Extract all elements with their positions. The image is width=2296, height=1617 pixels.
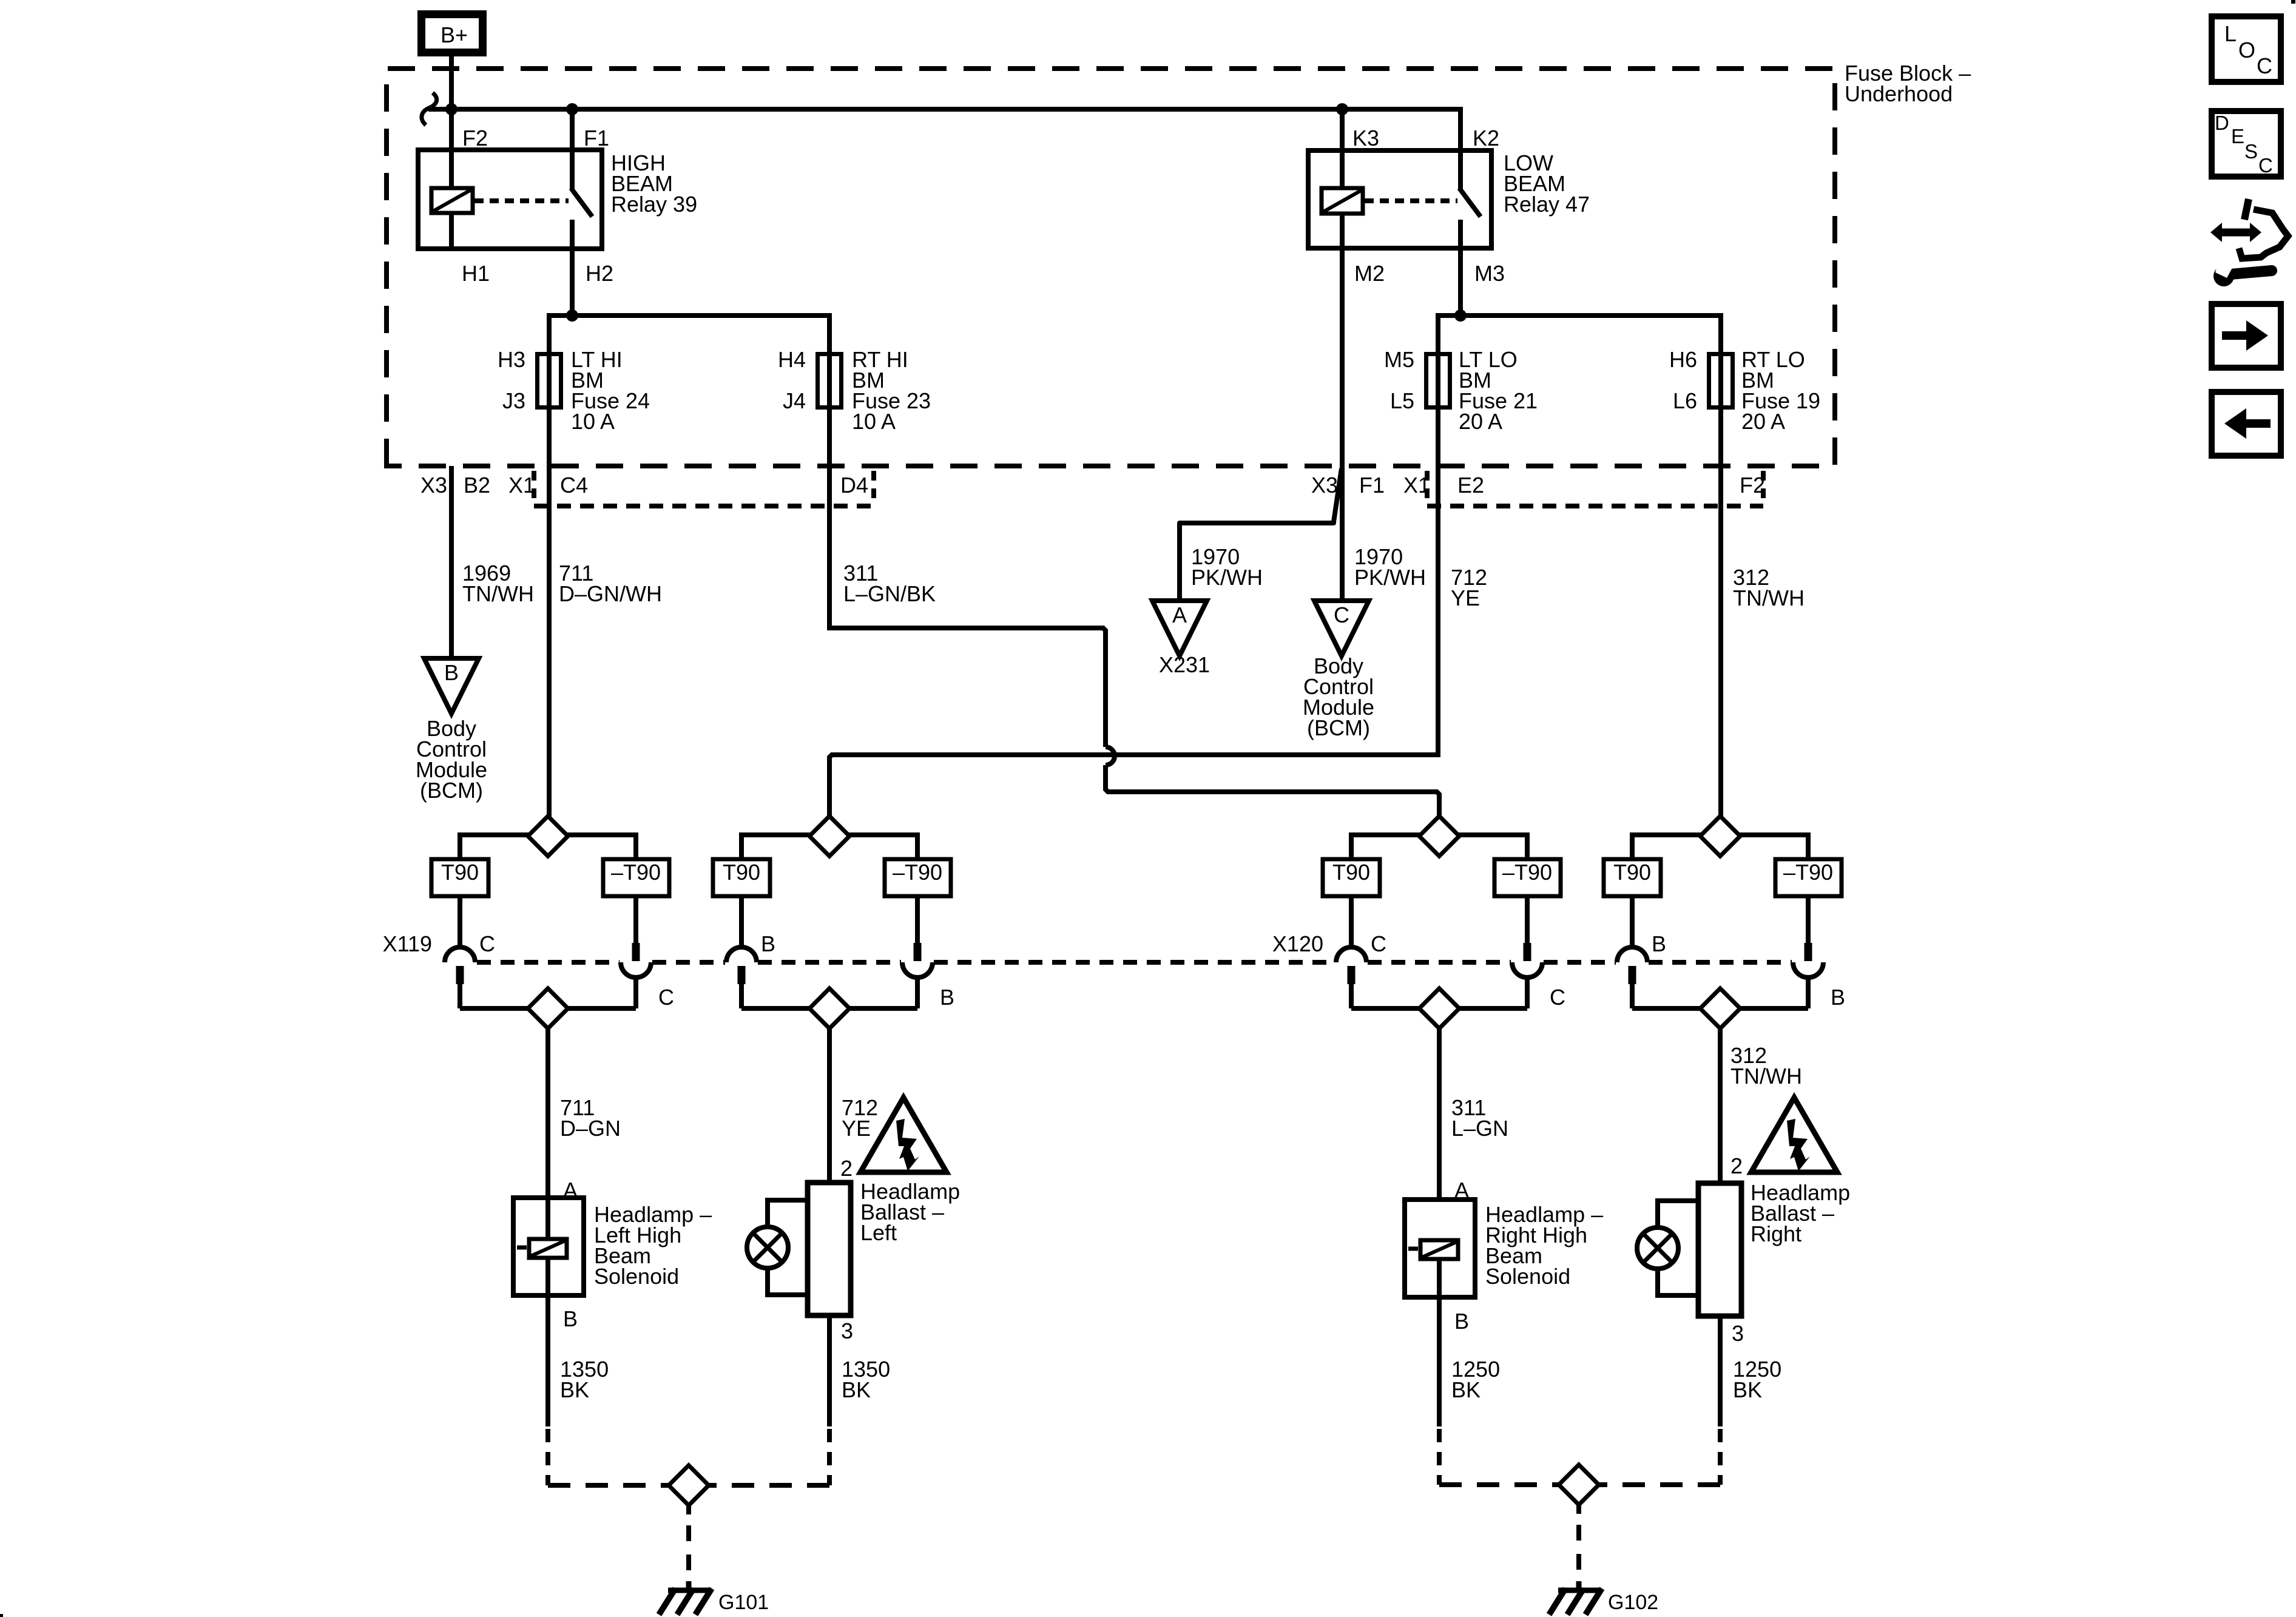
relay 39 HIGH BEAM box [418, 150, 602, 249]
wire 311 L-GN to right solenoid [1437, 1028, 1442, 1240]
svg-text:L–GN/BK: L–GN/BK [843, 581, 936, 606]
svg-text:20 A: 20 A [1459, 409, 1502, 434]
svg-text:D–GN/WH: D–GN/WH [559, 581, 662, 606]
svg-text:K2: K2 [1473, 126, 1499, 150]
svg-text:G102: G102 [1608, 1591, 1658, 1614]
svg-text:C4: C4 [560, 473, 588, 498]
wire 1969 TN/WH to BCM [449, 466, 454, 660]
svg-text:C: C [1334, 603, 1349, 627]
svg-text:L: L [2224, 21, 2237, 46]
svg-text:3: 3 [1732, 1321, 1744, 1346]
svg-text:C: C [1550, 985, 1565, 1010]
svg-text:T90: T90 [1332, 860, 1370, 885]
ground G101 [659, 1581, 712, 1615]
lamp symbol [1658, 1201, 1698, 1227]
svg-text:D–GN: D–GN [560, 1116, 621, 1141]
svg-text:B: B [1831, 985, 1845, 1010]
svg-text:F2: F2 [462, 126, 488, 150]
svg-text:K3: K3 [1352, 126, 1379, 150]
lamp symbol [768, 1200, 808, 1227]
icon wrench [2230, 271, 2272, 274]
svg-text:2: 2 [840, 1156, 853, 1181]
svg-text:–T90: –T90 [1783, 860, 1833, 885]
svg-text:C: C [658, 985, 674, 1010]
svg-text:YE: YE [842, 1116, 871, 1141]
svg-text:T90: T90 [1613, 860, 1651, 885]
svg-text:Left: Left [860, 1220, 897, 1245]
svg-text:B: B [940, 985, 954, 1010]
svg-text:B+: B+ [441, 22, 468, 47]
ground net to G102 (dashed) [1437, 1429, 1442, 1485]
svg-text:C: C [2258, 154, 2273, 177]
svg-text:B: B [1454, 1309, 1469, 1334]
ground splice diamond G102 [1559, 1465, 1599, 1505]
svg-text:–T90: –T90 [893, 860, 942, 885]
svg-text:X231: X231 [1159, 652, 1210, 677]
page corner marks [2291, 0, 2295, 4]
svg-text:2: 2 [1730, 1153, 1743, 1178]
svg-text:F1: F1 [1359, 473, 1385, 498]
headlamp left high beam solenoid [513, 1198, 584, 1295]
svg-text:T90: T90 [723, 860, 760, 885]
splice group X120 left (wire 311) [1351, 832, 1420, 837]
wires from fuses down to connector row [547, 408, 552, 817]
svg-text:D: D [2215, 112, 2229, 134]
fuse 24 LT HI BM (H3/J3) [538, 354, 561, 408]
svg-text:E2: E2 [1457, 473, 1484, 498]
svg-text:O: O [2238, 38, 2255, 62]
svg-text:Right: Right [1751, 1221, 1801, 1246]
in-line connector dashed lines [477, 960, 620, 965]
svg-text:TN/WH: TN/WH [1730, 1064, 1802, 1089]
fuse block underhood dashed border [387, 69, 1835, 466]
wire: B+ feed down into fuse block [449, 53, 454, 188]
wire bus corner down to K2 [1458, 109, 1460, 150]
svg-text:H6: H6 [1669, 347, 1697, 372]
relay 39 switch [570, 109, 575, 189]
svg-text:S: S [2244, 140, 2258, 163]
svg-text:YE: YE [1451, 586, 1480, 610]
svg-text:B: B [1652, 931, 1666, 956]
svg-text:X119: X119 [383, 931, 432, 956]
svg-text:X120: X120 [1272, 931, 1323, 956]
icon LOC box [2212, 16, 2281, 82]
fuse 23 RT HI BM (H4/J4) [818, 354, 842, 408]
svg-text:–T90: –T90 [1502, 860, 1552, 885]
svg-text:B: B [444, 660, 459, 685]
svg-text:–T90: –T90 [611, 860, 661, 885]
connector triangle B [424, 658, 479, 714]
svg-text:M3: M3 [1474, 261, 1505, 286]
headlamp ballast right [1698, 1183, 1741, 1316]
svg-text:BK: BK [1451, 1377, 1481, 1402]
svg-text:C: C [2257, 53, 2272, 78]
wire 712 YE to left ballast [827, 1028, 832, 1184]
svg-text:J3: J3 [502, 388, 525, 413]
icon DESC box [2212, 111, 2281, 177]
connector X1 dashed box (right) [1425, 471, 1430, 506]
svg-text:20 A: 20 A [1741, 409, 1785, 434]
svg-text:H4: H4 [778, 347, 806, 372]
svg-text:L5: L5 [1390, 388, 1414, 413]
relay 47 coil [1340, 109, 1345, 189]
svg-text:H1: H1 [462, 261, 490, 286]
wire 312 TN/WH to right ballast [1718, 1028, 1723, 1185]
svg-text:PK/WH: PK/WH [1354, 565, 1426, 590]
splice group X119 left (wire 711) [460, 832, 529, 837]
svg-text:C: C [1371, 931, 1386, 956]
svg-text:J4: J4 [783, 388, 806, 413]
wire 712 route E2 to X119 right [829, 755, 1438, 817]
svg-text:Relay 47: Relay 47 [1504, 192, 1590, 217]
svg-text:X1: X1 [1403, 473, 1430, 498]
svg-text:10 A: 10 A [571, 409, 615, 434]
ground G102 [1549, 1581, 1602, 1615]
connector triangle A [1152, 601, 1207, 656]
relay 47 switch [1458, 150, 1463, 189]
wire continuation squiggle at left end of bus [422, 93, 437, 125]
svg-text:H3: H3 [498, 347, 525, 372]
junction dot H2 branch [566, 309, 578, 322]
splice group X119 right (wire 712) [741, 832, 811, 837]
icon swap/adjust arrows with panel outline [2220, 229, 2252, 237]
svg-text:(BCM): (BCM) [1307, 715, 1370, 740]
wire: main feed bus inside fuse block [428, 107, 1460, 112]
svg-text:F1: F1 [584, 126, 609, 150]
svg-text:A: A [1172, 603, 1187, 627]
wire M3 to fuses M5/H6 [1458, 248, 1463, 316]
wire H2 to fuses H3/H4 [570, 249, 575, 316]
headlamp ballast left [808, 1183, 851, 1315]
svg-text:X1: X1 [508, 473, 535, 498]
svg-text:X3: X3 [420, 473, 447, 498]
svg-text:BK: BK [1733, 1377, 1762, 1402]
svg-text:G101: G101 [718, 1591, 769, 1614]
relay 39 coil [449, 150, 454, 189]
relay 39 coil-to-switch dashed link [474, 198, 569, 203]
svg-text:B2: B2 [464, 473, 490, 498]
svg-text:T90: T90 [441, 860, 479, 885]
connector triangle C [1314, 601, 1369, 656]
icon forward arrow box [2212, 304, 2281, 368]
junction dot M3 branch [1454, 309, 1467, 322]
warning triangle (right) [1751, 1098, 1837, 1172]
svg-text:TN/WH: TN/WH [1733, 586, 1805, 610]
svg-text:C: C [479, 931, 495, 956]
svg-text:Underhood: Underhood [1845, 81, 1953, 106]
junction dot at B+ wire / bus [445, 103, 458, 115]
fuse 21 LT LO BM (M5/L5) [1427, 354, 1450, 408]
svg-text:BK: BK [842, 1377, 871, 1402]
svg-text:H2: H2 [586, 261, 613, 286]
connector X1 dashed box (left) [532, 471, 536, 506]
svg-text:PK/WH: PK/WH [1191, 565, 1263, 590]
warning triangle (left) [860, 1098, 947, 1172]
svg-text:D4: D4 [840, 473, 868, 498]
ground splice diamond G101 [669, 1465, 709, 1505]
svg-text:BK: BK [560, 1377, 589, 1402]
svg-text:L6: L6 [1673, 388, 1697, 413]
svg-text:3: 3 [841, 1318, 853, 1343]
svg-text:M2: M2 [1354, 261, 1385, 286]
svg-text:E: E [2231, 125, 2244, 147]
wire M2 down to triangle C [1340, 248, 1345, 602]
junction dot at relay 47 K3 [1336, 103, 1348, 115]
svg-text:F2: F2 [1740, 473, 1765, 498]
svg-text:Solenoid: Solenoid [594, 1264, 679, 1289]
fuse 19 RT LO BM (H6/L6) [1709, 354, 1733, 408]
svg-text:TN/WH: TN/WH [462, 581, 534, 606]
svg-text:B: B [761, 931, 775, 956]
svg-text:Relay 39: Relay 39 [611, 192, 697, 217]
svg-text:B: B [563, 1306, 578, 1331]
svg-text:X3: X3 [1311, 473, 1338, 498]
ground net to G101 (dashed) [545, 1429, 550, 1485]
svg-text:10 A: 10 A [852, 409, 896, 434]
icon back arrow box [2212, 392, 2281, 456]
svg-text:Solenoid: Solenoid [1485, 1264, 1570, 1289]
junction dot at relay 39 F1 [566, 103, 578, 115]
relay 47 coil-to-switch dashed link [1365, 198, 1457, 203]
wire 1970 branch to X231 [1180, 468, 1342, 602]
node B+ battery feed box [422, 15, 483, 53]
svg-text:L–GN: L–GN [1451, 1116, 1508, 1141]
wire 311 route D4 to X120 with hop over 712 [829, 628, 1106, 747]
svg-text:(BCM): (BCM) [420, 778, 483, 803]
splice group X120 right (wire 312) [1632, 832, 1701, 837]
wire 711 D-GN to left solenoid [545, 1028, 550, 1240]
headlamp right high beam solenoid [1405, 1200, 1475, 1297]
relay 47 LOW BEAM box [1308, 150, 1491, 248]
svg-text:M5: M5 [1384, 347, 1414, 372]
